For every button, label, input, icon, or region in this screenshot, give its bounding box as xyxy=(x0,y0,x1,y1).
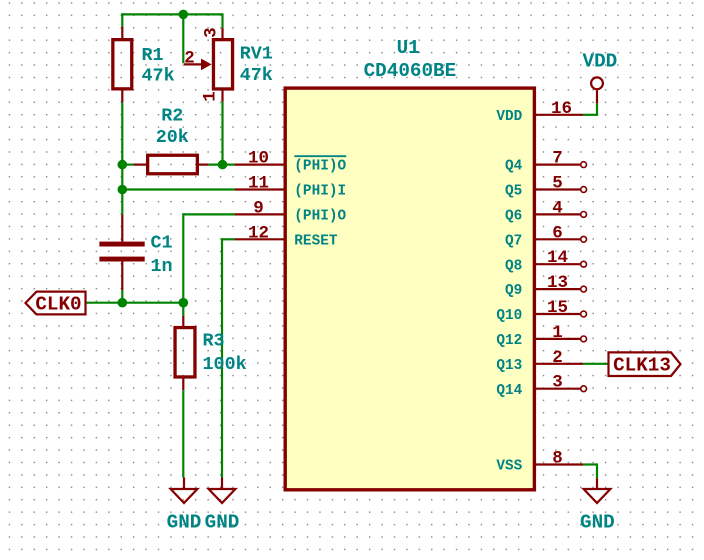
power symbol VDD xyxy=(591,77,603,103)
svg-text:9: 9 xyxy=(253,198,264,218)
RV1 pin number 2 xyxy=(184,49,195,69)
resistor R3 xyxy=(175,316,195,391)
wire pin 9 vertical xyxy=(182,213,184,302)
reference C1 xyxy=(151,233,173,254)
wire RV1 wiper vertical xyxy=(182,14,184,63)
wire RV1 pin1 down xyxy=(221,102,223,165)
junction R2 right / RV1 xyxy=(218,160,228,170)
svg-text:1: 1 xyxy=(552,323,563,343)
wire RV1 pin3 drop xyxy=(221,13,223,27)
U1 pin 5 xyxy=(534,174,586,194)
junction CLK0 / C1 xyxy=(118,298,128,308)
svg-text:Q8: Q8 xyxy=(505,258,522,274)
U1 pin name Q10 xyxy=(496,308,522,324)
svg-text:47k: 47k xyxy=(142,66,175,87)
svg-text:VSS: VSS xyxy=(496,459,522,475)
U1 pin name Q6 xyxy=(505,209,522,225)
U1 pin 4 xyxy=(534,198,586,218)
svg-text:Q4: Q4 xyxy=(505,159,523,175)
U1 pin 6 xyxy=(534,223,586,243)
svg-text:GND: GND xyxy=(580,512,615,534)
svg-text:1n: 1n xyxy=(151,256,173,277)
junction R2 left xyxy=(118,160,128,170)
svg-text:2: 2 xyxy=(552,348,563,368)
U1 pin 10 xyxy=(235,149,285,169)
U1 pin name VDD xyxy=(496,109,522,125)
ground (pin 12) xyxy=(209,478,236,504)
svg-text:VDD: VDD xyxy=(496,109,522,125)
wire pin 11 xyxy=(122,188,234,190)
U1 pin name (PHI)I xyxy=(294,184,346,200)
svg-text:GND: GND xyxy=(205,512,240,534)
svg-text:Q12: Q12 xyxy=(496,333,522,349)
wire left column R1-C1 xyxy=(121,102,123,214)
svg-text:VDD: VDD xyxy=(583,50,618,72)
svg-text:6: 6 xyxy=(552,223,563,243)
svg-text:(PHI)I: (PHI)I xyxy=(294,184,346,200)
junction top wiper tap xyxy=(179,10,189,20)
ground (R3) xyxy=(171,478,198,504)
svg-text:14: 14 xyxy=(547,248,568,268)
wire VSS horizontal xyxy=(583,463,597,465)
U1 pin 15 xyxy=(534,298,586,318)
capacitor C1 xyxy=(99,214,144,290)
reference U1 xyxy=(397,37,420,59)
potentiometer RV1 xyxy=(184,28,233,102)
svg-text:3: 3 xyxy=(552,373,563,393)
global label CLK0 xyxy=(26,292,86,316)
svg-text:11: 11 xyxy=(248,174,269,194)
op IC body U1 xyxy=(285,88,534,490)
U1 pin 13 xyxy=(534,273,586,293)
wire pin 2 to CLK13 xyxy=(583,363,609,365)
wire R2 right to pin 10 xyxy=(208,164,234,166)
wire CLK0 xyxy=(86,302,184,304)
svg-text:2: 2 xyxy=(184,49,195,69)
svg-text:15: 15 xyxy=(547,298,568,318)
wire R3 to GND xyxy=(182,390,184,477)
svg-text:3: 3 xyxy=(202,27,222,38)
U1 pin name Q5 xyxy=(505,184,522,200)
reference R1 xyxy=(142,45,164,66)
U1 pin name (PHI)O xyxy=(294,209,346,225)
svg-text:5: 5 xyxy=(552,174,563,194)
U1 pin name Q14 xyxy=(496,383,522,399)
svg-text:(PHI)O: (PHI)O xyxy=(294,159,346,175)
value 1n xyxy=(151,256,173,277)
svg-text:4: 4 xyxy=(552,198,563,218)
reference RV1 xyxy=(240,44,273,65)
svg-text:13: 13 xyxy=(547,273,568,293)
svg-text:R1: R1 xyxy=(142,45,164,66)
svg-text:8: 8 xyxy=(552,449,563,469)
U1 pin 14 xyxy=(534,248,586,268)
svg-text:U1: U1 xyxy=(397,37,420,59)
U1 pin 2 xyxy=(534,348,583,368)
U1 pin 8 xyxy=(534,449,583,469)
value 100k xyxy=(203,354,247,375)
U1 pin 1 xyxy=(534,323,586,343)
wire pin 12 down to GND xyxy=(221,238,223,477)
svg-text:GND: GND xyxy=(167,512,202,534)
svg-text:C1: C1 xyxy=(151,233,173,254)
svg-text:Q10: Q10 xyxy=(496,308,522,324)
svg-text:RESET: RESET xyxy=(294,233,338,249)
U1 pin 16 xyxy=(534,99,583,119)
U1 pin name (PHI)O xyxy=(294,156,346,175)
wire junction to R2 left xyxy=(122,164,133,166)
GND text (pin 12) xyxy=(205,512,240,534)
svg-text:RV1: RV1 xyxy=(240,44,273,65)
GND text (R3) xyxy=(167,512,202,534)
svg-text:Q7: Q7 xyxy=(505,233,522,249)
U1 pin 7 xyxy=(534,149,586,169)
svg-text:47k: 47k xyxy=(240,65,273,86)
wire R3 top xyxy=(182,303,184,316)
value 20k xyxy=(156,127,189,148)
svg-text:Q9: Q9 xyxy=(505,283,522,299)
svg-text:20k: 20k xyxy=(156,127,189,148)
U1 pin name Q8 xyxy=(505,258,522,274)
RV1 pin number 1 xyxy=(201,91,221,102)
svg-text:7: 7 xyxy=(552,149,563,169)
wire VDD vertical xyxy=(596,103,598,116)
wire pin 12 horizontal xyxy=(222,238,235,240)
reference R3 xyxy=(203,330,225,351)
svg-text:16: 16 xyxy=(551,99,572,119)
U1 pin 12 xyxy=(235,223,285,243)
U1 pin name RESET xyxy=(294,233,338,249)
svg-text:Q6: Q6 xyxy=(505,209,522,225)
RV1 pin number 3 xyxy=(202,27,222,38)
svg-text:12: 12 xyxy=(248,223,269,243)
junction pin 11 xyxy=(118,185,128,195)
wire R1 top drop xyxy=(121,13,123,26)
svg-text:Q13: Q13 xyxy=(496,358,522,374)
svg-text:Q5: Q5 xyxy=(505,184,522,200)
wire VSS down to GND xyxy=(596,463,598,478)
wire top bus R1-RV1 xyxy=(121,13,222,15)
U1 pin 11 xyxy=(235,174,285,194)
svg-text:10: 10 xyxy=(248,149,269,169)
U1 pin name Q7 xyxy=(505,233,522,249)
wire pin 9 horizontal xyxy=(183,213,234,215)
GND text (VSS) xyxy=(580,512,615,534)
value 47k (RV1) xyxy=(240,65,273,86)
svg-text:CLK13: CLK13 xyxy=(613,355,671,377)
U1 pin name Q13 xyxy=(496,358,522,374)
U1 pin name VSS xyxy=(496,459,522,475)
svg-text:Q14: Q14 xyxy=(496,383,522,399)
reference R2 xyxy=(161,105,183,126)
svg-text:CD4060BE: CD4060BE xyxy=(364,60,457,82)
U1 pin name Q12 xyxy=(496,333,522,349)
ground (VSS) xyxy=(584,478,611,503)
svg-text:R2: R2 xyxy=(161,105,183,126)
svg-text:1: 1 xyxy=(201,91,221,102)
junction CLK0 / R3 xyxy=(179,298,189,308)
wire C1 bottom xyxy=(121,290,123,303)
resistor R1 xyxy=(113,27,132,103)
U1 pin 3 xyxy=(534,373,586,393)
U1 pin name Q9 xyxy=(505,283,522,299)
U1 pin name Q4 xyxy=(505,159,523,175)
global label CLK13 xyxy=(609,352,681,376)
value CD4060BE xyxy=(364,60,457,82)
svg-text:R3: R3 xyxy=(203,330,225,351)
svg-text:CLK0: CLK0 xyxy=(35,294,81,316)
svg-text:100k: 100k xyxy=(203,354,247,375)
svg-text:(PHI)O: (PHI)O xyxy=(294,209,346,225)
resistor R2 xyxy=(134,155,209,174)
VDD text xyxy=(583,50,618,72)
U1 pin 9 xyxy=(235,198,285,218)
value 47k (R1) xyxy=(142,66,175,87)
wire VDD horizontal xyxy=(583,114,597,116)
